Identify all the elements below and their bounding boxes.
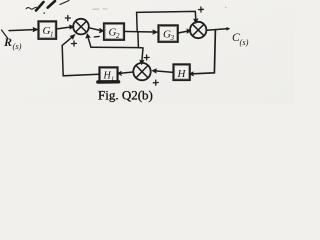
block G3 <box>158 25 178 42</box>
sign + (S3 right input) <box>153 80 158 85</box>
svg-text:1: 1 <box>50 31 54 39</box>
block G1 <box>38 21 56 39</box>
summing junction S3 <box>133 63 150 80</box>
node R(s) input label <box>3 35 22 51</box>
block H1 <box>98 67 119 82</box>
stray flourish near R <box>2 30 8 38</box>
sign + (S1 left input) <box>65 16 70 21</box>
svg-text:(s): (s) <box>240 37 249 47</box>
wire G1 to summer S1 <box>56 27 70 29</box>
wire output S2 to C(s) <box>206 29 228 31</box>
svg-text:2: 2 <box>116 32 120 40</box>
summing junction S2 <box>190 22 206 38</box>
sign - (S1 lower-right input) <box>94 35 99 38</box>
sign + (S1 lower-left input from H1) <box>72 41 77 46</box>
wire inner feedback: down from takeoff, left, diagonal into S1 <box>91 32 138 48</box>
block H <box>173 64 190 80</box>
wire H to summer S3 <box>156 71 174 73</box>
stray scribble strokes top-left <box>26 1 227 14</box>
wire down from takeoff line to S3 top <box>138 48 143 61</box>
summing junction S1 <box>73 19 89 35</box>
svg-text:Fig. Q2(b): Fig. Q2(b) <box>98 88 153 103</box>
wire input R(s) to G1 <box>9 30 34 31</box>
sign + (S2 top input) <box>199 7 204 12</box>
wire S1 to G2 <box>89 28 101 31</box>
wire feedforward takeoff up and across to S2 <box>137 11 196 31</box>
block G2 <box>104 23 124 40</box>
wire output takeoff down and left into H <box>193 30 216 74</box>
svg-text:3: 3 <box>170 34 175 42</box>
wire S3 to H1 <box>121 72 134 73</box>
wire G2 to G3 (main line with takeoff node) <box>124 30 153 33</box>
caption Fig. Q2(b) <box>98 88 153 103</box>
svg-text:1: 1 <box>111 76 114 83</box>
svg-text:H: H <box>177 68 187 80</box>
sign + (S3 top input) <box>144 55 149 60</box>
node C(s) output label <box>232 32 249 47</box>
wire G3 to summer S2 <box>178 31 188 33</box>
svg-text:(s): (s) <box>13 41 22 51</box>
wire H1 left, up, diagonal into S1 <box>62 45 99 75</box>
